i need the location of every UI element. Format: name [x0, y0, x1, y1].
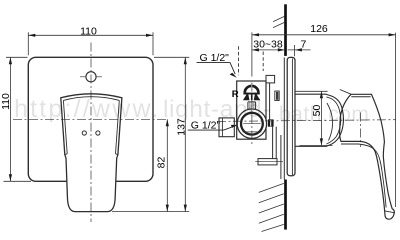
- svg-text:110: 110: [80, 25, 97, 37]
- svg-text:82: 82: [155, 157, 167, 169]
- svg-text:30~38: 30~38: [253, 39, 283, 51]
- svg-text:bath.com: bath.com: [279, 103, 369, 126]
- svg-text:light-and-: light-and-: [163, 96, 271, 123]
- svg-text:110: 110: [0, 93, 12, 110]
- svg-text:7: 7: [300, 39, 306, 51]
- svg-text:126: 126: [310, 23, 328, 35]
- svg-text:http://www.: http://www.: [14, 95, 160, 123]
